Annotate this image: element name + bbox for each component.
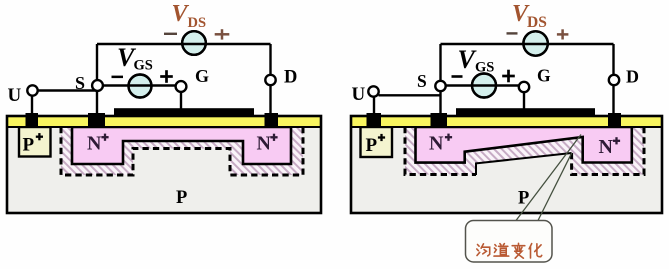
svg-text:N: N	[257, 133, 272, 155]
svg-text:S: S	[75, 73, 85, 93]
svg-text:S: S	[417, 71, 427, 91]
svg-text:G: G	[537, 66, 551, 86]
svg-text:U: U	[8, 85, 22, 106]
svg-text:P: P	[366, 135, 378, 156]
svg-text:DS: DS	[527, 14, 547, 31]
svg-text:U: U	[352, 84, 366, 105]
svg-text:D: D	[626, 67, 639, 87]
svg-text:N: N	[429, 133, 444, 155]
svg-text:DS: DS	[188, 15, 207, 31]
svg-text:D: D	[284, 68, 297, 88]
svg-text:P: P	[23, 134, 35, 155]
svg-text:P: P	[518, 189, 529, 209]
svg-text:GS: GS	[475, 60, 494, 76]
svg-text:GS: GS	[134, 58, 153, 74]
svg-text:N: N	[599, 136, 614, 158]
svg-text:G: G	[195, 66, 209, 86]
svg-text:P: P	[176, 188, 187, 208]
svg-text:N: N	[87, 133, 102, 155]
